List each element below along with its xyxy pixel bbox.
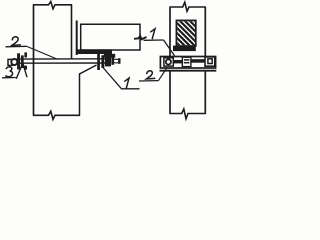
label 2 top-left underline	[6, 45, 27, 48]
right wall column left edge upper	[169, 7, 171, 56]
channel tick below rod	[24, 66, 27, 70]
anchor plate bar 2	[21, 55, 24, 68]
beam plate vertical edge	[76, 21, 78, 56]
bar segment 1	[174, 60, 182, 63]
beam bearing black bar	[76, 49, 112, 54]
bolt head rectangle	[8, 59, 12, 65]
left wall column left edge	[33, 5, 35, 116]
label 1 bottom-middle leader	[103, 68, 140, 89]
label 2 bottom-right underline	[139, 80, 159, 82]
left wall column right edge below rod (jog)	[80, 65, 97, 116]
right anchor plate	[97, 54, 100, 70]
right wall column top edge with break symbol	[170, 2, 206, 11]
beam break symbol on right edge	[134, 36, 147, 40]
channel tick above rod	[24, 52, 27, 57]
left wall column bottom edge with break symbol	[33, 111, 80, 119]
right wall column left edge lower	[169, 72, 171, 114]
right wall column right edge upper	[204, 7, 206, 56]
left wall column right edge above rod	[71, 5, 73, 59]
nut	[105, 56, 111, 66]
left fixing ring	[166, 59, 171, 64]
right wall column bottom edge with break symbol	[170, 109, 206, 119]
label 2 bottom-right leader	[159, 68, 168, 81]
grout block outline	[176, 20, 195, 46]
anchor plate bar 1	[17, 53, 20, 69]
rod end cap	[118, 58, 120, 64]
turnbuckle thread dash upper	[184, 59, 190, 61]
label 1 top-right digit	[151, 29, 155, 39]
bolt washer ring	[11, 59, 17, 65]
label 1 bottom-middle digit	[125, 78, 129, 88]
label 2 top-left leader	[27, 46, 58, 59]
tie rod top line	[16, 58, 105, 60]
right wall column right edge lower	[204, 72, 206, 114]
lock nut	[111, 57, 114, 64]
label 3 underline	[2, 77, 16, 79]
label 3 leader arrow	[16, 63, 27, 79]
anchor assembly outer plate rectangle	[160, 57, 215, 69]
label 3 digit	[6, 67, 13, 77]
bar segment 2	[191, 59, 205, 63]
label 2 top-left digit	[12, 37, 21, 46]
beam outline (horizontal member, top middle)	[81, 24, 140, 50]
beam bearing step chunk	[104, 54, 115, 58]
label 2 bottom-right digit	[146, 71, 154, 79]
turnbuckle thread dash lower	[184, 62, 190, 64]
left wall column top edge with break symbol	[33, 2, 72, 9]
label 1 top-right leader	[164, 40, 175, 56]
left fixing square	[164, 58, 173, 66]
grout block hatching	[172, 0, 202, 68]
turnbuckle body	[182, 57, 191, 66]
right fixing square	[205, 57, 215, 66]
tie rod bottom line	[16, 62, 105, 64]
right fixing inner square	[208, 59, 212, 64]
assembly lower joint line	[160, 70, 217, 72]
grout block black base	[173, 46, 196, 52]
label 1 top-right underline	[144, 39, 164, 41]
right washer	[101, 55, 104, 68]
thread stub	[114, 59, 118, 63]
